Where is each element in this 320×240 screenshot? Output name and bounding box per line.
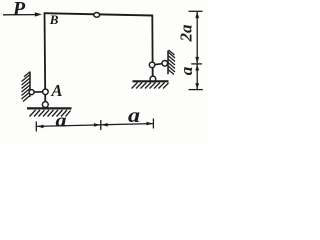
svg-text:A: A (51, 81, 63, 100)
svg-text:a: a (128, 105, 140, 127)
svg-text:2a: 2a (177, 24, 196, 43)
left support link bar at A (31, 91, 45, 93)
left support bottom pin circle (42, 102, 48, 108)
svg-text:B: B (49, 12, 59, 27)
wire right column member (151, 15, 153, 78)
dimension a right side (189, 64, 203, 89)
wire top beam B to right corner (44, 13, 153, 15)
right support wall hatch (168, 50, 175, 75)
left support ground line (27, 107, 72, 109)
left support wall pin circle (29, 90, 34, 95)
svg-text:P: P (12, 0, 26, 20)
dimension 2a right side (189, 11, 203, 64)
right support wall pin circle (162, 61, 168, 67)
svg-text:a: a (177, 66, 196, 75)
left support member pin circle A (43, 89, 49, 95)
wire left column member (44, 13, 47, 104)
dimension a a bottom (36, 119, 153, 132)
left support wall hatch (22, 72, 31, 102)
force P arrow (3, 12, 42, 16)
right support link bar (152, 63, 165, 65)
right support ground hatch (132, 83, 169, 89)
right support wall face (167, 51, 169, 75)
svg-text:a: a (56, 110, 68, 131)
left support ground hatch (30, 110, 71, 117)
left support wall face (29, 72, 31, 97)
right support ground line (133, 80, 169, 82)
right support member pin circle (149, 62, 155, 68)
right support bottom pin circle (150, 76, 156, 82)
hinge C on beam (94, 13, 100, 18)
